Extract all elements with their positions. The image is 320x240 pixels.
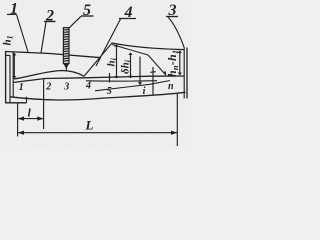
tick on divider top — [150, 71, 155, 74]
right wall inner — [183, 49, 185, 99]
extension line right for L — [176, 94, 178, 146]
small arrow at section i — [139, 57, 141, 85]
tick above 5 — [109, 73, 111, 83]
dimension hi arrow — [116, 45, 118, 78]
callout 5 leader — [69, 16, 81, 28]
water line C right — [112, 45, 166, 76]
label hn-h1 — [165, 50, 180, 77]
callout 3 label — [166, 2, 178, 19]
callout 5 label — [81, 2, 94, 19]
callout 1 label — [7, 1, 18, 18]
label h1 — [1, 35, 14, 45]
rising surface line — [84, 43, 112, 76]
callout 3 leader — [168, 17, 185, 49]
dimension hn-h1 arrow — [179, 53, 181, 75]
left wall inner — [9, 55, 11, 103]
deposit middle line — [95, 81, 170, 91]
label hi — [106, 57, 119, 66]
callout 4 leader — [96, 19, 121, 66]
callout 2 leader — [41, 22, 46, 53]
arrowhead of line C — [163, 71, 167, 76]
dimension L — [18, 132, 178, 134]
bottom line left tank — [5, 102, 26, 104]
background paper — [0, 0, 192, 146]
divider/extension at i-n — [152, 67, 154, 95]
rod tip — [63, 64, 69, 69]
band bottom edge — [10, 92, 186, 100]
left wall inner 2 — [12, 52, 14, 97]
band top second rail — [86, 80, 157, 82]
water surface line left — [5, 52, 101, 58]
callout 1 leader — [17, 15, 29, 53]
dimension delta-hi arrow — [130, 54, 132, 78]
callout 4 label — [119, 4, 136, 21]
right wall outer — [186, 48, 188, 99]
left wall outer — [5, 51, 7, 103]
label delta-hi — [120, 59, 133, 74]
paper grain overlay — [0, 0, 1, 1]
extension line left for dims — [17, 103, 19, 137]
threaded rod 5 — [63, 28, 69, 64]
dimension h1 arrow — [13, 53, 15, 78]
band top edge — [13, 76, 185, 83]
mound curve — [14, 71, 84, 80]
top line right (tent right slope) — [112, 43, 184, 50]
band divider after 1 — [43, 79, 45, 129]
left wall flange line — [5, 54, 10, 56]
callout 2 label — [44, 8, 56, 25]
left tank bottom end vertical — [26, 97, 28, 103]
dimension l — [18, 118, 44, 120]
